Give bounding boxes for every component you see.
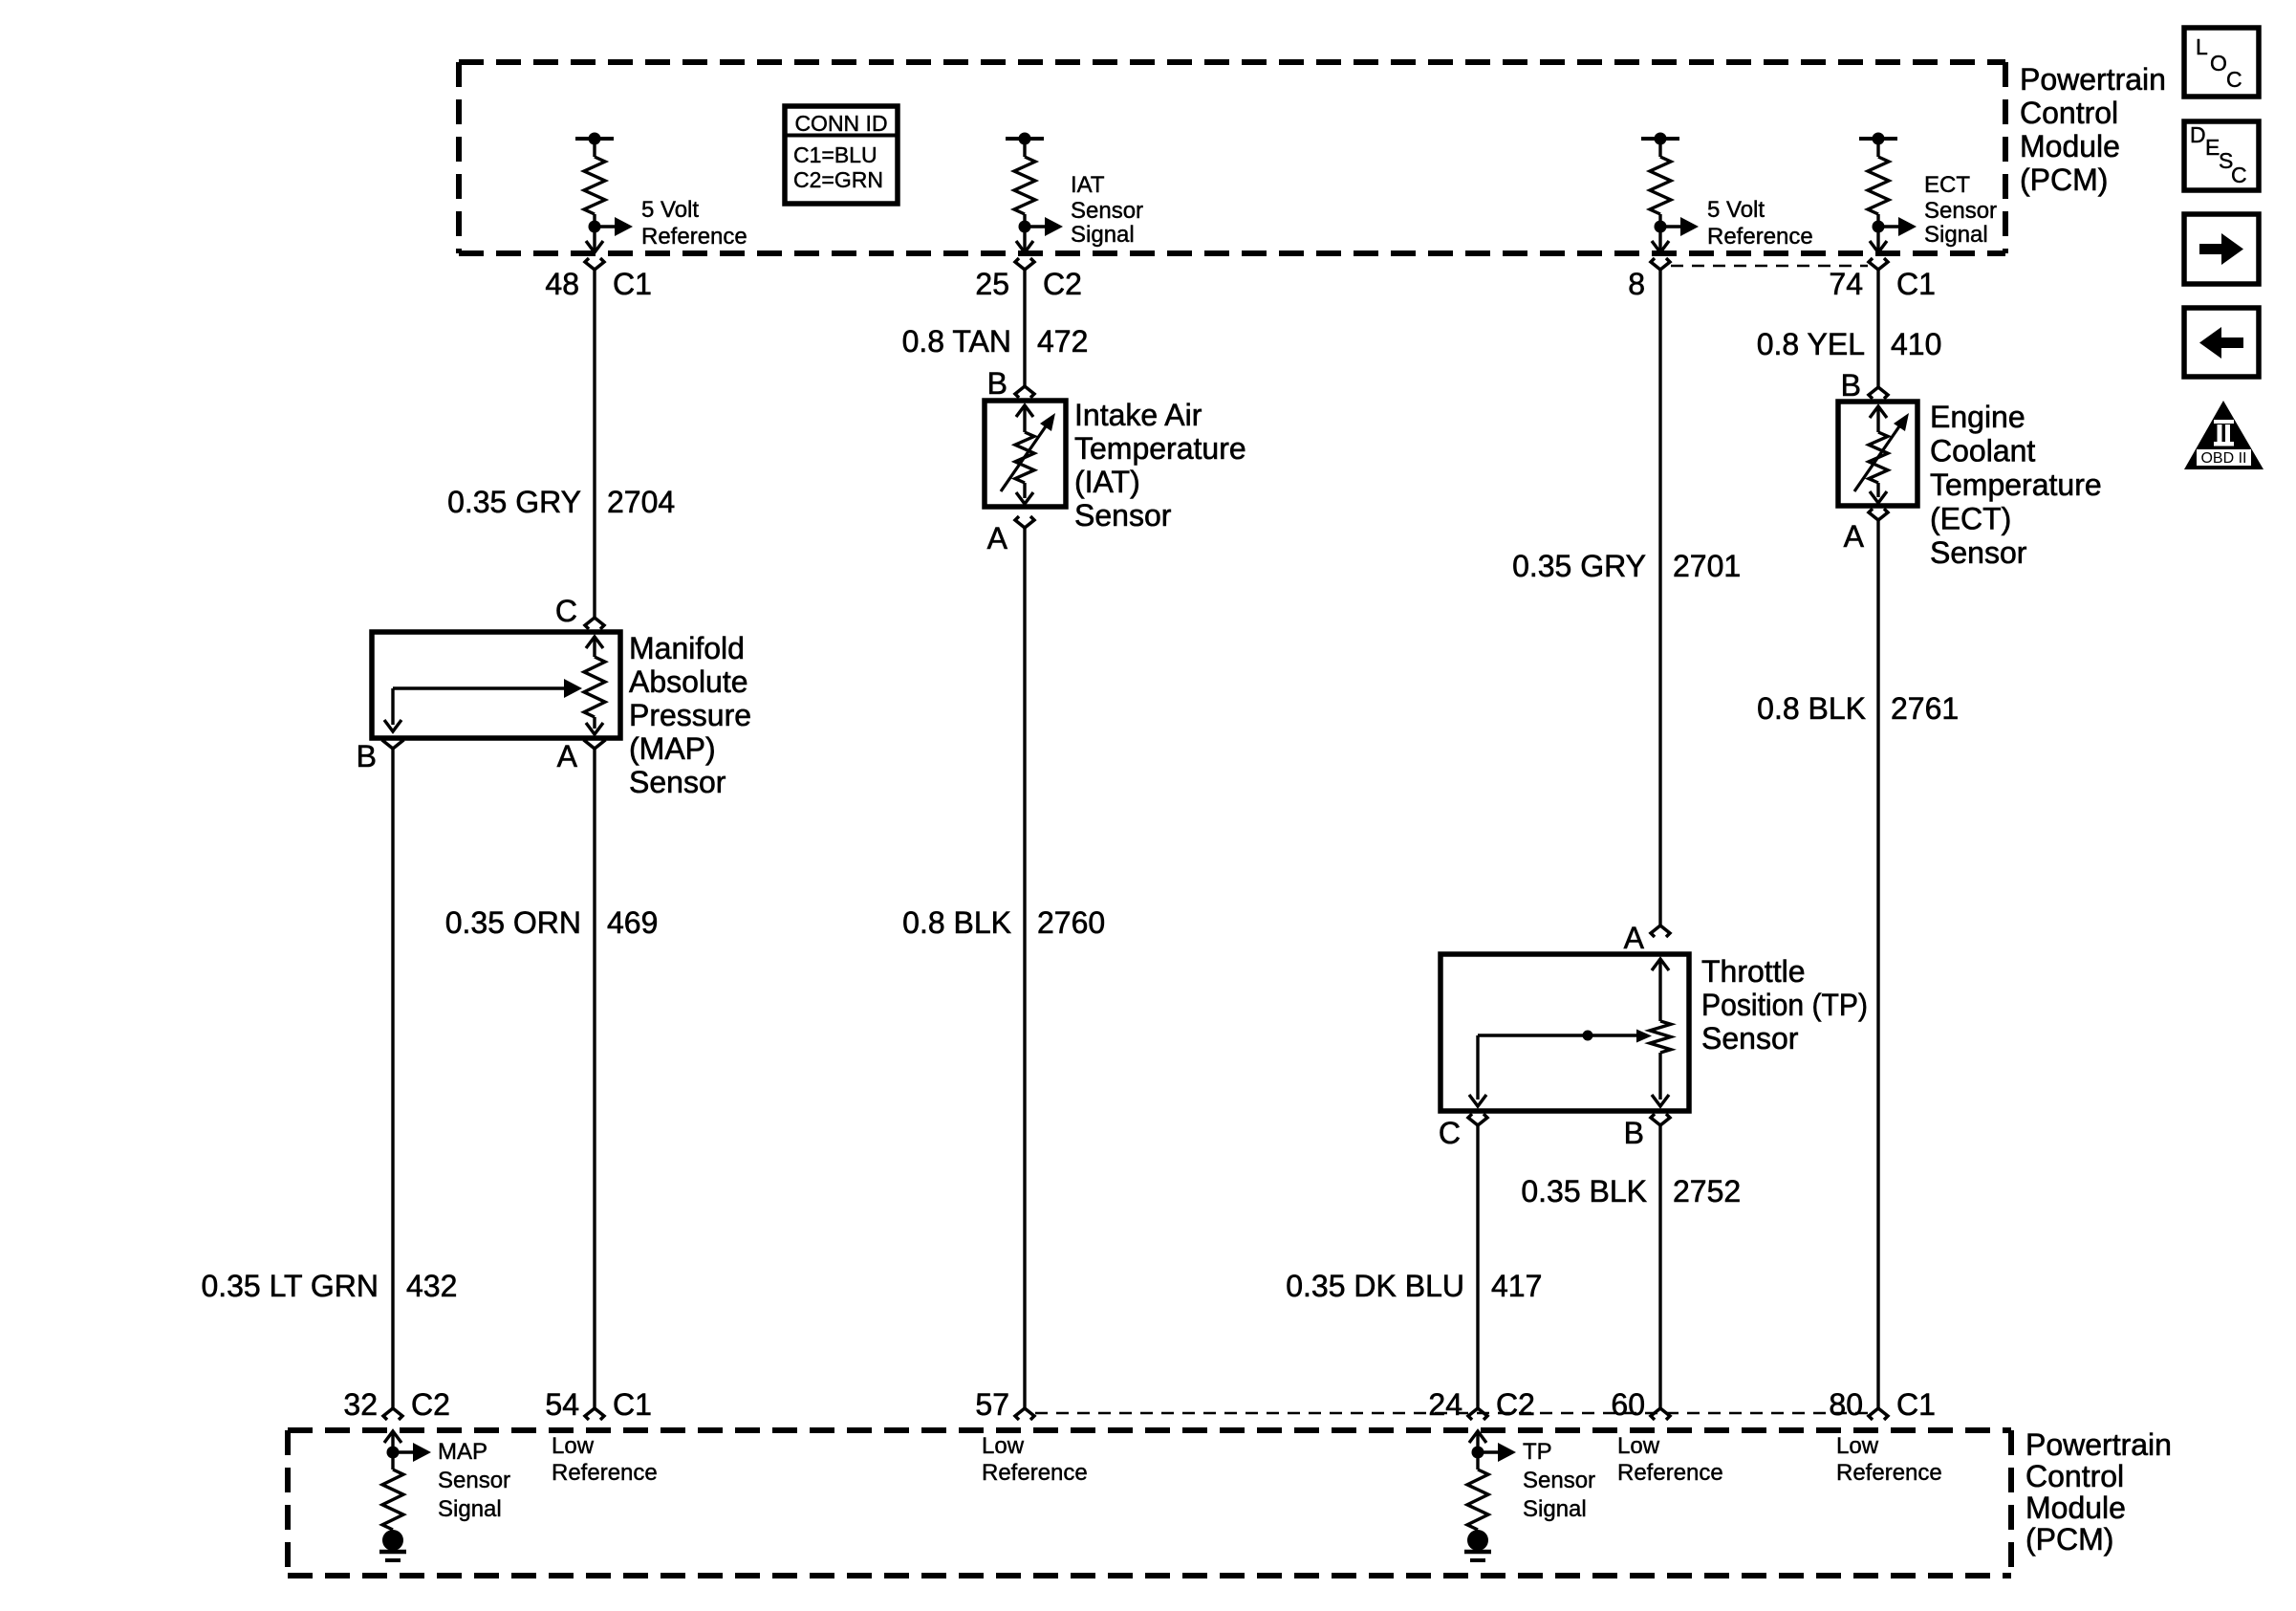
svg-text:469: 469 [607, 905, 658, 940]
svg-text:L: L [2196, 34, 2208, 59]
svg-text:2761: 2761 [1891, 691, 1959, 726]
svg-text:C1=BLU: C1=BLU [793, 142, 877, 167]
svg-text:Reference: Reference [1617, 1460, 1723, 1486]
svg-text:Signal: Signal [1071, 222, 1135, 248]
svg-text:0.35 DK BLU: 0.35 DK BLU [1286, 1269, 1464, 1303]
svg-text:Sensor: Sensor [1930, 535, 2027, 570]
value label 0.35 BLK 2752 [1521, 1174, 1741, 1208]
svg-text:Signal: Signal [1924, 222, 1988, 248]
resistor: 5 Volt Reference pull-up R1 for MAP (inside PCM) [575, 133, 633, 253]
value label 0.8 BLK 2760 [902, 905, 1105, 940]
label: Powertrain Control Module (PCM) bottom [2025, 1427, 2172, 1557]
svg-text:0.35 BLK: 0.35 BLK [1521, 1174, 1647, 1208]
svg-text:Reference: Reference [552, 1460, 658, 1486]
svg-text:Low: Low [1617, 1433, 1660, 1459]
svg-text:B: B [987, 366, 1007, 401]
value label 0.8 YEL 410 [1757, 327, 1942, 361]
svg-text:ECT: ECT [1924, 172, 1970, 198]
wire 0.8 BLK 2760 (IAT A to pin 57) [1023, 528, 1026, 1408]
label: Low Reference [1617, 1433, 1723, 1486]
pin 48 C1 (PCM top connector) [545, 258, 652, 301]
node B (MAP connector) [357, 737, 402, 773]
label: Engine Coolant Temperature (ECT) Sensor [1930, 400, 2102, 570]
label: Throttle Position (TP) Sensor [1701, 954, 1868, 1056]
svg-text:Control: Control [2020, 96, 2118, 130]
value label 0.35 LT GRN 432 [201, 1269, 457, 1303]
svg-text:CONN ID: CONN ID [794, 111, 887, 136]
svg-text:Module: Module [2020, 129, 2120, 163]
svg-text:IAT: IAT [1071, 172, 1105, 198]
svg-text:Module: Module [2025, 1491, 2126, 1525]
svg-text:2760: 2760 [1037, 905, 1105, 940]
svg-text:32: 32 [343, 1387, 378, 1422]
label: 5 Volt Reference (MAP) [641, 197, 747, 250]
svg-text:(PCM): (PCM) [2025, 1522, 2113, 1557]
PCM module U1 (bottom) dashed outline [288, 1430, 2011, 1576]
svg-text:C: C [2231, 163, 2247, 187]
node C (TP connector) [1439, 1114, 1487, 1150]
svg-text:D: D [2190, 122, 2206, 147]
node C (MAP connector) [555, 594, 604, 629]
label: Intake Air Temperature (IAT) Sensor [1074, 398, 1246, 533]
svg-text:Pressure: Pressure [629, 698, 751, 732]
svg-text:Sensor: Sensor [629, 765, 726, 799]
svg-text:Low: Low [982, 1433, 1025, 1459]
svg-text:A: A [557, 739, 578, 773]
svg-text:57: 57 [975, 1387, 1009, 1422]
svg-text:74: 74 [1829, 267, 1863, 301]
pin 60 (PCM bottom connector) [1611, 1387, 1670, 1422]
icon: OBD II triangle [2184, 401, 2264, 469]
svg-text:C1: C1 [613, 267, 652, 301]
pin 32 C2 (PCM bottom connector) [343, 1387, 450, 1422]
label: IAT Sensor Signal [1071, 172, 1143, 248]
wire 0.8 TAN 472 (pin 25 to IAT B) [1023, 270, 1026, 386]
svg-text:Sensor: Sensor [438, 1468, 510, 1493]
resistor: ECT Sensor Signal pull-up R4 (inside PCM) [1859, 133, 1917, 253]
wire 0.35 GRY 2701 (pin 8 to TP A) [1658, 270, 1661, 925]
svg-text:Low: Low [1836, 1433, 1879, 1459]
node A (TP connector) [1624, 921, 1670, 955]
svg-text:C2: C2 [1043, 267, 1082, 301]
connector body dashed link pins 8-74 [1671, 265, 1868, 268]
svg-text:0.35 LT GRN: 0.35 LT GRN [201, 1269, 379, 1303]
svg-text:410: 410 [1891, 327, 1941, 361]
svg-text:0.8 BLK: 0.8 BLK [1757, 691, 1866, 726]
value label 0.35 GRY 2701 [1512, 549, 1741, 583]
label: Powertrain Control Module (PCM) top [2020, 62, 2166, 197]
label: MAP Sensor Signal [438, 1439, 510, 1522]
svg-text:Sensor: Sensor [1924, 198, 1997, 224]
label: ECT Sensor Signal [1924, 172, 1997, 248]
svg-text:2701: 2701 [1673, 549, 1741, 583]
icon: forward arrow button [2184, 214, 2259, 284]
label: TP Sensor Signal [1523, 1439, 1595, 1522]
value label 0.35 ORN 469 [445, 905, 659, 940]
svg-text:0.8 YEL: 0.8 YEL [1757, 327, 1865, 361]
svg-text:Signal: Signal [438, 1496, 502, 1522]
svg-text:432: 432 [406, 1269, 457, 1303]
svg-text:O: O [2210, 51, 2227, 76]
node B (IAT connector) [987, 366, 1034, 401]
svg-text:(IAT): (IAT) [1074, 465, 1140, 499]
svg-text:OBD II: OBD II [2200, 450, 2246, 467]
svg-text:Sensor: Sensor [1074, 498, 1172, 533]
svg-text:5 Volt: 5 Volt [1707, 197, 1765, 223]
svg-text:25: 25 [975, 267, 1009, 301]
icon: DESC button [2184, 121, 2259, 190]
svg-text:Low: Low [552, 1433, 595, 1459]
icon: LOC button [2184, 28, 2259, 97]
svg-text:417: 417 [1491, 1269, 1542, 1303]
svg-text:24: 24 [1428, 1387, 1462, 1422]
svg-text:Throttle: Throttle [1701, 954, 1805, 989]
pin 80 C1 (PCM bottom connector) [1829, 1387, 1936, 1422]
svg-text:Powertrain: Powertrain [2020, 62, 2166, 97]
IAT sensor B2 (thermistor) [985, 401, 1066, 507]
node A (MAP connector) [557, 737, 604, 773]
svg-text:0.8 BLK: 0.8 BLK [902, 905, 1011, 940]
svg-text:Temperature: Temperature [1074, 431, 1246, 466]
svg-text:2704: 2704 [607, 485, 675, 519]
resistor: TP input load (inside PCM) [1467, 1431, 1516, 1530]
CONN ID table [785, 106, 898, 204]
ECT sensor B3 (thermistor) [1838, 402, 1917, 506]
svg-text:C2=GRN: C2=GRN [793, 167, 883, 192]
label: 5 Volt Reference (TP) [1707, 197, 1813, 250]
resistor: 5 Volt Reference pull-up R3 for TP (inside PCM) [1641, 133, 1699, 253]
svg-text:60: 60 [1611, 1387, 1645, 1422]
svg-text:Position (TP): Position (TP) [1701, 988, 1868, 1022]
label: Low Reference [982, 1433, 1088, 1486]
svg-text:Reference: Reference [641, 224, 747, 250]
svg-text:Reference: Reference [1707, 224, 1813, 250]
svg-text:Manifold: Manifold [629, 631, 745, 665]
node B (TP connector) [1624, 1114, 1670, 1150]
svg-text:C2: C2 [1496, 1387, 1535, 1422]
svg-text:C: C [2226, 67, 2242, 92]
connector body dashed link pins 57-80 [1035, 1412, 1868, 1415]
svg-text:Intake Air: Intake Air [1074, 398, 1202, 432]
resistor: MAP input load (inside PCM) [382, 1431, 431, 1530]
svg-text:A: A [987, 521, 1008, 555]
icon: back arrow button [2184, 308, 2259, 377]
svg-text:48: 48 [545, 267, 579, 301]
svg-text:2752: 2752 [1673, 1174, 1741, 1208]
wire 0.8 BLK 2761 (ECT A to pin 80) [1876, 520, 1879, 1408]
svg-text:0.8 TAN: 0.8 TAN [902, 324, 1011, 359]
node A (IAT connector) [987, 516, 1034, 555]
ground (inside PCM, TP) [1464, 1530, 1491, 1560]
pin 74 C1 (PCM top connector) [1829, 258, 1936, 301]
label: Manifold Absolute Pressure (MAP) Sensor [629, 631, 751, 799]
svg-text:Powertrain: Powertrain [2025, 1427, 2172, 1462]
wire 0.35 LT GRN 432 (MAP B to pin 32) [391, 749, 394, 1408]
value label 0.35 DK BLU 417 [1286, 1269, 1542, 1303]
pin 24 C2 (PCM bottom connector) [1428, 1387, 1535, 1422]
svg-text:C1: C1 [1896, 267, 1936, 301]
ground (inside PCM, MAP) [379, 1530, 406, 1560]
svg-text:Sensor: Sensor [1701, 1021, 1799, 1056]
node A (ECT connector) [1844, 509, 1888, 554]
svg-text:B: B [1841, 368, 1861, 403]
wire 0.8 YEL 410 (pin 74 to ECT B) [1876, 270, 1879, 387]
svg-text:C: C [555, 594, 577, 628]
pin 25 C2 (PCM top connector) [975, 258, 1082, 301]
svg-text:B: B [357, 739, 377, 773]
svg-text:(ECT): (ECT) [1930, 502, 2011, 536]
svg-text:(MAP): (MAP) [629, 731, 716, 766]
label: Low Reference [552, 1433, 658, 1486]
wire 0.35 BLK 2752 (TP B to pin 60) [1658, 1125, 1661, 1408]
svg-text:C: C [1439, 1116, 1461, 1150]
resistor: IAT Sensor Signal pull-up R2 (inside PCM) [1006, 133, 1063, 253]
PCM module U1 (top) dashed outline [459, 62, 2005, 253]
wire 0.35 ORN 469 (MAP A to pin 54) [593, 749, 596, 1408]
svg-text:TP: TP [1523, 1439, 1552, 1465]
wire 0.35 GRY 2704 (pin 48 to MAP C) [593, 270, 596, 618]
svg-text:(PCM): (PCM) [2020, 163, 2108, 197]
svg-text:Absolute: Absolute [629, 664, 748, 699]
svg-text:Reference: Reference [982, 1460, 1088, 1486]
svg-text:8: 8 [1628, 267, 1645, 301]
node B (ECT connector) [1841, 368, 1888, 403]
svg-text:Sensor: Sensor [1523, 1468, 1595, 1493]
svg-text:5 Volt: 5 Volt [641, 197, 699, 223]
svg-text:80: 80 [1829, 1387, 1863, 1422]
pin 54 C1 (PCM bottom connector) [545, 1387, 652, 1422]
svg-text:472: 472 [1037, 324, 1088, 359]
svg-text:Engine: Engine [1930, 400, 2025, 434]
pin 8 (PCM top connector) [1628, 258, 1670, 301]
svg-text:0.35 GRY: 0.35 GRY [1512, 549, 1646, 583]
svg-text:A: A [1844, 519, 1865, 554]
svg-text:C2: C2 [411, 1387, 450, 1422]
svg-text:MAP: MAP [438, 1439, 487, 1465]
value label 0.8 BLK 2761 [1757, 691, 1959, 726]
pin 57 (PCM bottom connector) [975, 1387, 1034, 1422]
MAP sensor B1 (potentiometer) [372, 632, 620, 738]
value label 0.8 TAN 472 [902, 324, 1089, 359]
svg-text:Sensor: Sensor [1071, 198, 1143, 224]
svg-text:Reference: Reference [1836, 1460, 1942, 1486]
svg-text:54: 54 [545, 1387, 579, 1422]
svg-text:0.35 ORN: 0.35 ORN [445, 905, 581, 940]
svg-text:B: B [1624, 1116, 1644, 1150]
svg-text:C1: C1 [1896, 1387, 1936, 1422]
svg-text:C1: C1 [613, 1387, 652, 1422]
svg-text:Control: Control [2025, 1459, 2124, 1493]
svg-text:Coolant: Coolant [1930, 434, 2035, 468]
label: Low Reference [1836, 1433, 1942, 1486]
svg-text:A: A [1624, 921, 1645, 955]
svg-text:Signal: Signal [1523, 1496, 1587, 1522]
TP sensor B4 (potentiometer) [1440, 954, 1689, 1111]
svg-text:0.35 GRY: 0.35 GRY [447, 485, 581, 519]
svg-text:Temperature: Temperature [1930, 468, 2102, 502]
value label 0.35 GRY 2704 [447, 485, 675, 519]
wire 0.35 DK BLU 417 (TP C to pin 24) [1476, 1125, 1479, 1408]
